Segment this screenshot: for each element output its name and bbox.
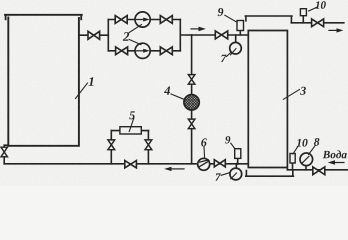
tank T1 body <box>8 17 79 145</box>
leader line label 9 top <box>225 15 237 22</box>
label 6 <box>201 138 207 146</box>
wire <box>191 110 193 119</box>
valve V13 (after pump 6) <box>214 160 225 167</box>
leader line label 1 <box>76 83 88 99</box>
leader line label 3 <box>283 90 299 100</box>
junction dot <box>236 163 239 166</box>
thermometer 10 (bottom) stem <box>292 163 294 170</box>
return pipe (bottom main) <box>4 163 248 165</box>
gauge 7 (bottom) <box>230 168 242 180</box>
wire: lower pump branch <box>108 50 180 52</box>
label 7 top <box>221 55 226 62</box>
label 8 <box>314 138 319 146</box>
valve V11 (bypass right riser) <box>145 140 152 150</box>
paper grain overlay <box>0 0 348 186</box>
leader line label 7 top <box>227 53 231 57</box>
gauge 7 (bottom) stem <box>235 164 237 168</box>
node: right manifold <box>179 20 181 51</box>
wire: valve V1 to return pipe <box>3 157 5 164</box>
valve V10 (bypass left riser) <box>108 140 115 150</box>
bypass riser left <box>110 131 112 164</box>
valve V6 (lower branch right) <box>160 47 172 55</box>
label 1 <box>89 77 94 86</box>
thermometer pocket 9 (bottom) <box>237 158 239 163</box>
leader lines label 2 <box>129 25 141 45</box>
node: left manifold <box>107 20 109 51</box>
valve V12 (return main, filled) <box>125 161 137 168</box>
flow arrow (return, leftward) <box>171 168 185 170</box>
wire: upper pump branch <box>108 19 180 21</box>
leader line label 10 top <box>309 7 318 11</box>
valve V8 (above filter, vertical) <box>188 75 195 85</box>
flow arrow (outlet, rightward) <box>329 29 338 31</box>
cold water inlet pipe (bottom right) <box>287 169 348 171</box>
branch to filter: wire from supply pipe <box>191 35 193 75</box>
bypass top run <box>111 130 148 132</box>
tank bottom stub <box>4 145 8 147</box>
pump P6 <box>198 158 210 170</box>
gauge 8 <box>300 153 313 166</box>
valve V1 (vertical, tank drain) <box>1 147 7 157</box>
wire to return pipe <box>191 129 193 164</box>
leader line label 9 bottom <box>231 143 235 149</box>
valve V7 (supply line) <box>215 31 227 39</box>
leader line label 6 <box>203 147 206 159</box>
leader line label 7 bottom <box>221 173 230 176</box>
supply pipe (top main) <box>180 34 248 36</box>
label 5 <box>129 111 135 119</box>
label 10 bottom <box>297 139 308 147</box>
pump P2b (lower) <box>135 43 150 58</box>
hot water outlet pipe (top right) <box>291 22 343 24</box>
label 4 <box>164 86 170 94</box>
gauge 8 stem <box>305 166 307 170</box>
wire <box>191 84 193 94</box>
heater column 3: base <box>246 171 294 177</box>
valve V5 (lower branch left) <box>116 47 128 55</box>
valve V2 (tank outlet) <box>88 31 100 39</box>
bypass riser right <box>147 131 149 164</box>
water meter 5 <box>120 127 141 134</box>
label 3 <box>300 87 306 95</box>
label 7 bottom <box>215 173 220 180</box>
valve V9 (below filter, vertical) <box>188 119 195 129</box>
tank T1 lid <box>5 15 82 20</box>
flow arrow (supply, right) <box>191 28 200 30</box>
valve V15 (inlet) <box>313 167 325 175</box>
filter F4 (hatched) <box>184 95 199 110</box>
leader line label 5 <box>129 118 134 131</box>
flow arrow (inlet, leftward) <box>334 162 344 164</box>
valve V4 (upper branch right) <box>160 16 172 24</box>
wire: tank outlet pipe <box>79 34 108 36</box>
label 9 bottom <box>225 136 230 143</box>
heater column 3: body <box>248 31 287 170</box>
thermometer pocket 9 (top) <box>239 31 241 35</box>
label 9 top <box>218 8 224 16</box>
leader line label 10 bottom <box>293 147 298 154</box>
heater column 3: top cap <box>245 16 292 23</box>
pump P2a (upper) <box>135 12 150 27</box>
gauge 7 (top) stem <box>235 35 237 43</box>
leader line label 4 <box>171 94 185 100</box>
thermometer 10 (top) stem <box>302 16 304 23</box>
leader line label 8 <box>309 146 316 155</box>
gauge 7 (top) <box>230 42 242 54</box>
label 2 <box>123 32 129 41</box>
label 10 top <box>315 1 326 8</box>
valve V3 (upper branch left) <box>115 16 127 24</box>
valve V14 (outlet) <box>312 19 324 27</box>
label Voda (water) <box>323 150 347 158</box>
